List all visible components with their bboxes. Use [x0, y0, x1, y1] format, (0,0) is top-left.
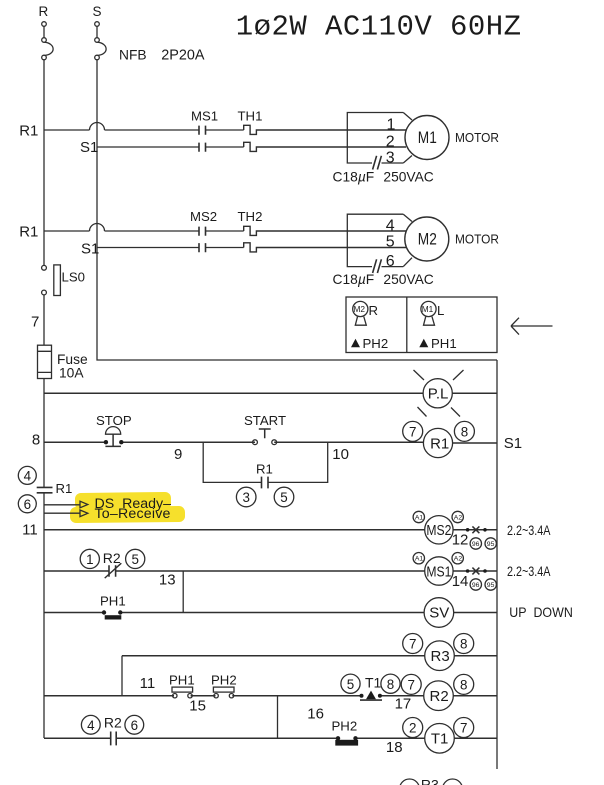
thermal TH1 on R1 — [244, 125, 406, 134]
svg-text:STOP: STOP — [96, 413, 132, 428]
pin 6 circle (R2 contact) — [125, 715, 144, 734]
wire rung S1 row1 — [97, 146, 244, 148]
svg-text:2: 2 — [386, 133, 395, 150]
pin 8 circle (R2 coil right) — [454, 674, 474, 694]
svg-text:T1: T1 — [365, 675, 382, 691]
contact R2 NO — [111, 732, 117, 746]
svg-text:8: 8 — [387, 677, 394, 692]
wire rung 11 MS2 — [44, 529, 497, 531]
svg-text:7: 7 — [31, 314, 39, 331]
svg-text:MS1: MS1 — [426, 563, 451, 580]
wire junction 13 — [182, 571, 184, 613]
svg-text:95: 95 — [487, 541, 495, 548]
arrow pointing left — [511, 318, 553, 335]
pin 4 circle — [18, 466, 36, 484]
svg-text:M1: M1 — [422, 304, 434, 314]
wire right bus — [496, 360, 498, 769]
limit switch LS0 — [42, 265, 61, 296]
svg-text:TH1: TH1 — [238, 109, 263, 124]
pin A1 circle (MS1) — [413, 553, 424, 564]
svg-text:MOTOR: MOTOR — [455, 231, 499, 246]
pin 5 circle — [274, 487, 294, 507]
wire holding branch — [203, 442, 328, 482]
svg-text:11: 11 — [22, 522, 38, 539]
wire bus below contact — [43, 493, 45, 738]
svg-text:S: S — [93, 4, 102, 19]
svg-text:250VAC: 250VAC — [383, 170, 433, 185]
wire capacitor bracket M1 — [347, 113, 403, 164]
wire bus below fuse — [43, 379, 45, 488]
label PH2 with triangle — [351, 336, 388, 351]
capacitor C2 slashes — [373, 259, 382, 273]
svg-text:R1: R1 — [256, 462, 273, 477]
wire left bus R upper — [43, 60, 45, 265]
wire junction 16 down — [277, 696, 279, 739]
wire rung MS1 — [44, 570, 497, 572]
pilot lamp P.L — [414, 370, 464, 417]
wire rung R2 — [44, 695, 497, 697]
pin 8 circle (R3) — [454, 634, 474, 654]
svg-text:C18µF: C18µF — [333, 170, 375, 185]
svg-text:A2: A2 — [454, 514, 463, 521]
svg-text:PH2: PH2 — [211, 673, 237, 688]
svg-text:4: 4 — [87, 718, 95, 733]
thermal TH2 on S1 — [244, 243, 406, 252]
svg-text:96: 96 — [472, 541, 480, 548]
pin 6 circle — [18, 495, 36, 513]
overload marker dot-X-dot (MS2) — [466, 526, 487, 533]
svg-text:4: 4 — [24, 469, 32, 484]
svg-text:S1: S1 — [504, 435, 522, 452]
wire bus below LS0 — [43, 295, 45, 345]
motor M2 circle — [405, 217, 449, 261]
svg-text:T1: T1 — [431, 731, 449, 748]
contact R2 NC with slash — [105, 563, 122, 578]
svg-text:MS2: MS2 — [426, 522, 451, 539]
highlight DS Ready bar 1 — [75, 492, 171, 510]
svg-text:11: 11 — [140, 675, 156, 692]
svg-text:R3: R3 — [431, 648, 450, 665]
contactor coil MS1 — [425, 557, 453, 585]
svg-text:MS1: MS1 — [191, 109, 218, 124]
wire rung P.L — [44, 392, 497, 394]
svg-text:95: 95 — [487, 582, 495, 589]
contact PH2 closed (dots and bar) — [335, 736, 358, 746]
pin 3 circle — [236, 487, 256, 507]
pin 95 circle (MS2) — [485, 538, 496, 549]
svg-text:LS0: LS0 — [62, 270, 85, 285]
contact R1 (holding, NO) — [262, 477, 269, 489]
pushbutton STOP (NC mushroom) — [96, 413, 132, 446]
wire rung R1 row2 with hop — [44, 230, 90, 232]
svg-text:7: 7 — [409, 637, 416, 652]
svg-text:To–Receive: To–Receive — [95, 506, 171, 522]
svg-text:10: 10 — [332, 446, 349, 463]
pin 5 circle — [126, 549, 145, 568]
svg-text:1: 1 — [387, 116, 396, 133]
wire DS line 2 with arrow — [44, 510, 88, 517]
svg-text:MOTOR: MOTOR — [455, 130, 499, 145]
hop over S bus row2 — [90, 224, 105, 231]
svg-text:START: START — [244, 413, 286, 428]
wire capacitor bracket M2 — [347, 214, 403, 266]
pin 7 circle (R2 coil) — [401, 674, 421, 694]
svg-text:15: 15 — [189, 698, 206, 715]
svg-text:M2: M2 — [354, 304, 366, 314]
contact MS2 on R1 — [199, 227, 206, 236]
wire rung T1 — [44, 737, 497, 739]
contact PH1 NO (circles and bar) — [172, 687, 193, 698]
breaker NFB pole S — [95, 22, 106, 60]
pin circle (bottom cut row left) — [400, 779, 420, 785]
fuse F1 — [38, 345, 52, 378]
svg-text:R2: R2 — [430, 688, 449, 705]
pin 4 circle (R2 contact) — [81, 715, 100, 734]
lamp M2 R — [353, 301, 368, 325]
highlight To-Receive bar 2 — [70, 506, 185, 523]
contact MS1 on R1 — [199, 126, 206, 135]
svg-text:8: 8 — [32, 431, 40, 448]
svg-text:7: 7 — [408, 678, 415, 693]
svg-text:18: 18 — [386, 739, 403, 756]
svg-text:14: 14 — [452, 573, 469, 590]
svg-text:R1: R1 — [19, 224, 38, 241]
relay coil R3 — [425, 641, 455, 671]
contact PH1 closed (dots and bar) — [102, 610, 123, 619]
svg-text:S1: S1 — [80, 139, 98, 156]
pin 7 circle (R3) — [403, 634, 423, 654]
svg-text:TH2: TH2 — [238, 209, 263, 224]
hop over S bus — [90, 123, 105, 130]
wire DS line 1 with arrow — [44, 501, 88, 508]
pin 7 circle (T1 coil) — [454, 718, 474, 738]
svg-text:M1: M1 — [418, 129, 437, 147]
relay coil R1 — [423, 428, 452, 457]
contact PH2 NO (circles and bar) — [213, 687, 234, 698]
svg-text:5: 5 — [280, 490, 287, 505]
overload marker dot-X-dot (MS1) — [466, 568, 487, 575]
svg-text:2P20A: 2P20A — [161, 48, 205, 64]
svg-text:PH1: PH1 — [169, 673, 195, 688]
label PH1 with triangle — [419, 336, 456, 351]
svg-text:5: 5 — [132, 552, 139, 567]
svg-text:6: 6 — [386, 253, 395, 270]
svg-text:R1: R1 — [430, 435, 449, 452]
svg-text:S1: S1 — [81, 241, 99, 258]
svg-text:3: 3 — [386, 149, 395, 166]
svg-text:2: 2 — [409, 721, 416, 736]
svg-text:17: 17 — [395, 696, 412, 713]
motor M1 circle — [405, 116, 449, 160]
svg-text:C18µF: C18µF — [333, 272, 375, 287]
svg-text:NFB: NFB — [119, 48, 147, 63]
contact MS2 on S1 — [199, 243, 206, 252]
svg-text:R3: R3 — [421, 777, 439, 785]
svg-text:UP DOWN: UP DOWN — [509, 604, 573, 620]
svg-text:2.2~3.4A: 2.2~3.4A — [507, 522, 551, 538]
svg-text:250VAC: 250VAC — [383, 272, 433, 287]
svg-text:5: 5 — [386, 233, 395, 250]
svg-text:8: 8 — [460, 637, 467, 652]
svg-text:SV: SV — [429, 605, 449, 622]
wire rung SV — [44, 612, 497, 614]
wire rung 8 — [44, 441, 497, 444]
svg-text:A1: A1 — [415, 514, 424, 521]
svg-text:MS2: MS2 — [190, 209, 217, 224]
svg-text:10A: 10A — [59, 365, 84, 380]
svg-text:R1: R1 — [56, 481, 73, 496]
pin 8 circle (T1 contact) — [381, 674, 400, 693]
relay coil R2 — [424, 681, 454, 711]
pin 8 circle — [454, 421, 474, 441]
thermal TH1 on S1 — [244, 142, 406, 151]
indicator box M2R M1L — [346, 297, 497, 353]
contact MS1 on S1 — [199, 143, 206, 152]
svg-text:P.L: P.L — [428, 386, 449, 403]
svg-text:R2: R2 — [103, 550, 121, 566]
svg-text:2.2~3.4A: 2.2~3.4A — [507, 563, 551, 579]
svg-text:PH1: PH1 — [100, 594, 126, 609]
svg-text:PH2: PH2 — [363, 336, 389, 351]
svg-text:M2: M2 — [418, 231, 437, 249]
wire junction R3 down — [121, 656, 123, 696]
contact T1 delay (dots triangle underline) — [360, 691, 383, 701]
svg-text:96: 96 — [472, 582, 480, 589]
svg-text:5: 5 — [347, 677, 354, 692]
svg-text:7: 7 — [460, 721, 467, 736]
capacitor C1 slashes — [373, 156, 382, 170]
svg-text:R2: R2 — [104, 714, 122, 730]
pin A1 circle (MS2) — [413, 511, 424, 522]
breaker NFB pole R — [42, 22, 53, 60]
pin 96 circle (MS2) — [470, 538, 481, 549]
contact R1 (vertical NO on bus) — [37, 487, 53, 492]
svg-text:8: 8 — [461, 425, 468, 440]
svg-text:A2: A2 — [454, 556, 463, 563]
svg-text:6: 6 — [131, 718, 138, 733]
wire rung R1 row1 with hop — [44, 129, 90, 131]
wire rung R3 — [122, 655, 497, 657]
svg-text:PH1: PH1 — [431, 336, 457, 351]
svg-text:R1: R1 — [19, 123, 38, 140]
svg-text:1ø2W AC110V 60HZ: 1ø2W AC110V 60HZ — [236, 10, 522, 43]
contactor coil MS2 — [425, 516, 453, 544]
pin circle (bottom cut row right) — [443, 779, 463, 785]
svg-text:13: 13 — [159, 572, 176, 589]
svg-text:12: 12 — [452, 532, 469, 549]
pin 5 circle (T1 contact) — [341, 674, 360, 693]
solenoid valve coil SV — [424, 598, 454, 628]
wire rung S1 row2 — [97, 247, 244, 249]
pin 95 circle (MS1) — [485, 579, 496, 590]
wire S bus — [97, 60, 497, 360]
thermal TH2 on R1 — [244, 226, 406, 235]
svg-text:3: 3 — [243, 490, 250, 505]
svg-text:7: 7 — [409, 425, 416, 440]
svg-text:9: 9 — [174, 446, 182, 463]
svg-text:8: 8 — [460, 678, 467, 693]
pin 96 circle (MS1) — [470, 579, 481, 590]
svg-text:A1: A1 — [415, 556, 424, 563]
timer coil T1 — [425, 724, 455, 754]
svg-text:1: 1 — [86, 552, 93, 567]
svg-text:L: L — [437, 303, 444, 318]
pin 7 circle — [403, 421, 423, 441]
svg-text:R: R — [39, 4, 49, 19]
pin A2 circle (MS2) — [452, 511, 463, 522]
pin 2 circle (T1 coil) — [403, 718, 423, 738]
svg-text:R: R — [369, 303, 379, 318]
svg-text:16: 16 — [307, 706, 324, 723]
pin 1 circle — [80, 549, 99, 568]
svg-text:4: 4 — [386, 218, 395, 235]
pin A2 circle (MS1) — [452, 553, 463, 564]
svg-text:6: 6 — [24, 497, 31, 512]
svg-text:PH2: PH2 — [332, 719, 358, 734]
pushbutton START (NO) — [244, 413, 286, 445]
lamp M1 L — [421, 301, 436, 325]
